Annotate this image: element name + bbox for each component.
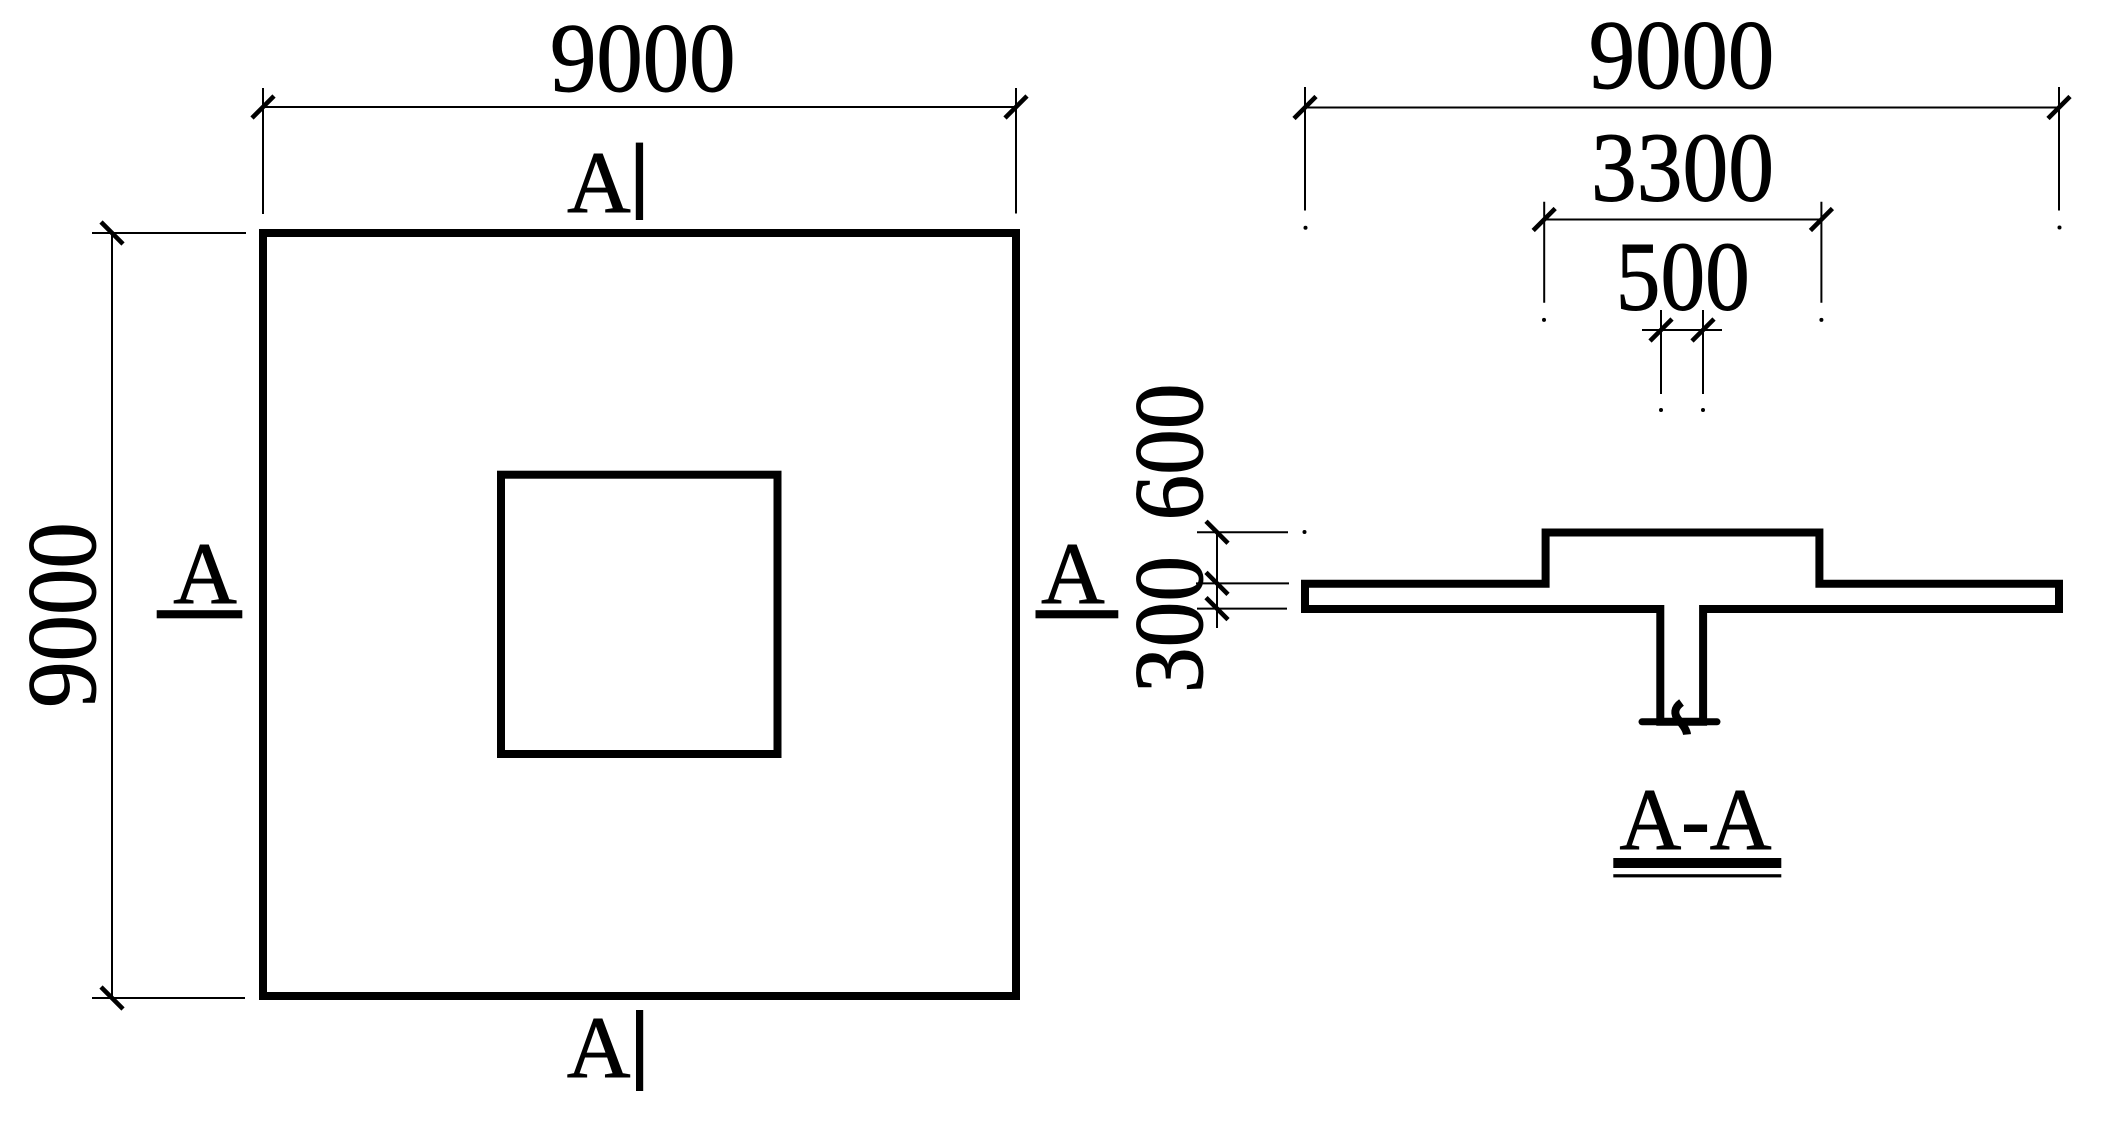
section 3300 dimension line bbox=[1543, 219, 1823, 221]
section 500 extension right bbox=[1702, 310, 1704, 394]
svg-text:A: A bbox=[1041, 526, 1105, 623]
section vertical dimension line 600/300 bbox=[1216, 532, 1218, 628]
section vert dim tick at slab top bbox=[1206, 572, 1228, 594]
section marker A right underline bbox=[1036, 610, 1119, 618]
plan top dim tick right bbox=[1005, 96, 1027, 118]
section 3300 extension right bbox=[1820, 202, 1822, 303]
section 3300 tick left bbox=[1533, 209, 1555, 231]
svg-text:A-A: A-A bbox=[1620, 772, 1772, 869]
section 3300 extension dot right bbox=[1819, 318, 1823, 322]
section 9000 tick right bbox=[2048, 97, 2070, 119]
section 9000 extension dot right bbox=[2058, 226, 2062, 230]
section vert dim extension at drop top bbox=[1197, 531, 1288, 533]
section 500 extension left bbox=[1660, 310, 1662, 394]
svg-text:3300: 3300 bbox=[1591, 113, 1774, 222]
svg-text:9000: 9000 bbox=[1589, 1, 1775, 110]
plan top dim extension line left bbox=[262, 88, 264, 214]
svg-text:A: A bbox=[567, 135, 631, 232]
plan left dim extension line bottom bbox=[92, 997, 245, 999]
section 3300 extension dot left bbox=[1542, 318, 1546, 322]
section marker A left underline bbox=[157, 610, 243, 618]
section 500 dimension line bbox=[1642, 329, 1722, 331]
plan left dimension line 9000 bbox=[111, 233, 113, 998]
section 9000 tick left bbox=[1294, 97, 1316, 119]
section 3300 tick right bbox=[1810, 209, 1832, 231]
section vert dim tick at slab bottom bbox=[1206, 598, 1228, 620]
plan view: outer slab square bbox=[263, 233, 1016, 996]
svg-text:600: 600 bbox=[1115, 384, 1224, 521]
section marker bar bottom bbox=[636, 1010, 643, 1091]
section 500 extension dot right bbox=[1701, 408, 1705, 412]
svg-text:500: 500 bbox=[1616, 222, 1750, 331]
plan top dim tick left bbox=[252, 96, 274, 118]
plan left dim tick bottom bbox=[101, 987, 123, 1009]
section 9000 extension left bbox=[1304, 87, 1306, 211]
section 9000 extension right bbox=[2058, 87, 2060, 211]
svg-text:A: A bbox=[173, 526, 237, 623]
plan top dim extension line right bbox=[1015, 88, 1017, 214]
svg-text:A: A bbox=[567, 1000, 631, 1097]
plan left dim tick top bbox=[101, 222, 123, 244]
section A-A outline: slab with drop panel and column stub bbox=[1305, 533, 2059, 722]
svg-text:9000: 9000 bbox=[550, 4, 736, 113]
section 500 extension dot left bbox=[1659, 408, 1663, 412]
section title thin underline bbox=[1613, 874, 1781, 877]
svg-text:9000: 9000 bbox=[8, 522, 117, 708]
section title thick underline bbox=[1613, 858, 1781, 868]
section marker bar top bbox=[636, 143, 643, 220]
section vert dim extension dot bbox=[1303, 530, 1307, 534]
section 3300 extension left bbox=[1543, 202, 1545, 303]
section vert dim extension at slab top bbox=[1196, 582, 1289, 584]
column break squiggle bbox=[1675, 703, 1687, 735]
plan left dim extension line top bbox=[92, 232, 246, 234]
svg-text:300: 300 bbox=[1115, 556, 1224, 693]
plan view: inner drop panel square bbox=[501, 475, 778, 754]
section 500 tick left bbox=[1650, 319, 1672, 341]
column break bar bbox=[1642, 718, 1717, 725]
plan top dimension line 9000 bbox=[262, 106, 1017, 108]
section vert dim extension at slab bottom bbox=[1197, 608, 1287, 610]
section 500 tick right bbox=[1692, 319, 1714, 341]
section top dimension line 9000 bbox=[1304, 107, 2060, 109]
section vert dim tick at drop top bbox=[1206, 521, 1228, 543]
section 9000 extension dot left bbox=[1304, 226, 1308, 230]
